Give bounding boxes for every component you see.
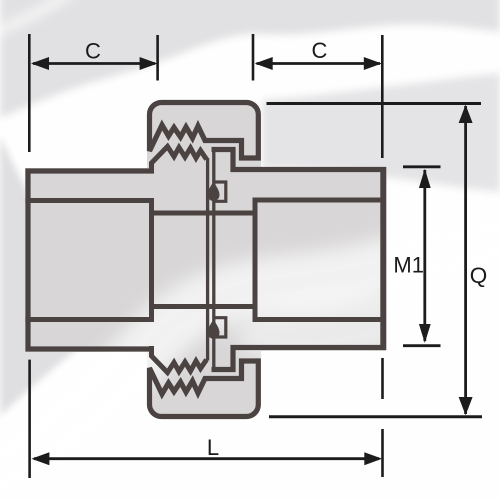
through-bore line top xyxy=(150,211,256,216)
C2 extension line left xyxy=(252,34,255,81)
C1 arrowhead right xyxy=(140,57,158,70)
bg swoosh top band xyxy=(0,0,500,118)
C2 extension line right xyxy=(381,35,384,158)
L extension line right lower xyxy=(381,429,384,477)
C2 arrowhead left xyxy=(255,57,273,70)
svg-text:C: C xyxy=(85,39,101,64)
union nut top half xyxy=(150,103,259,159)
C1 extension line right xyxy=(156,35,159,81)
Q dimension line xyxy=(464,106,467,414)
L arrowhead right xyxy=(364,452,382,465)
gasket groove top xyxy=(214,182,226,201)
union nut bottom half xyxy=(150,361,259,417)
left body thread riser bottom xyxy=(152,346,207,373)
through-bore line bottom xyxy=(150,304,256,309)
C2 arrowhead right xyxy=(364,57,382,70)
left body outer profile xyxy=(28,171,154,349)
C1 dimension line xyxy=(33,62,155,65)
o-ring top xyxy=(208,181,220,201)
L arrowhead left xyxy=(31,452,49,465)
o-ring bottom xyxy=(208,319,220,339)
svg-text:Q: Q xyxy=(470,263,488,288)
L dimension line xyxy=(34,457,379,460)
right body end face xyxy=(380,167,386,350)
left body thread riser top xyxy=(152,147,207,174)
bg swoosh right wash xyxy=(262,73,500,192)
gasket groove bottom xyxy=(214,318,226,337)
white highlight streak xyxy=(0,232,500,485)
svg-text:M1: M1 xyxy=(393,253,424,278)
right body socket bore xyxy=(255,200,384,320)
corner highlight streak xyxy=(0,0,72,34)
Q reference line bottom xyxy=(269,415,482,418)
Q arrowhead bottom xyxy=(459,397,473,415)
Q arrowhead top xyxy=(459,105,473,123)
C1 arrowhead left xyxy=(31,57,49,70)
bg swoosh left wedge xyxy=(0,136,136,416)
Q reference line top xyxy=(267,102,482,105)
svg-text:L: L xyxy=(207,435,219,460)
union nut fill xyxy=(147,100,261,419)
L extension line right upper xyxy=(381,358,384,399)
M1 tick top xyxy=(403,165,441,168)
M1 arrowhead bottom xyxy=(419,324,431,343)
left body mating face edge xyxy=(206,158,209,361)
M1 arrowhead top xyxy=(419,169,431,188)
right body mating face edge xyxy=(212,148,215,372)
left body fill xyxy=(25,168,154,352)
L extension line left xyxy=(28,360,31,478)
left body socket bore xyxy=(25,201,151,320)
fitting interior fill xyxy=(25,100,386,419)
M1 dimension line xyxy=(423,170,426,341)
C2 dimension line xyxy=(257,62,381,65)
C1 extension line left xyxy=(28,34,31,152)
M1 tick bottom xyxy=(403,344,441,347)
right body barrel fill xyxy=(228,167,386,351)
svg-text:C: C xyxy=(312,38,328,63)
right body flange fill xyxy=(211,147,237,372)
right body outer profile xyxy=(212,150,384,370)
